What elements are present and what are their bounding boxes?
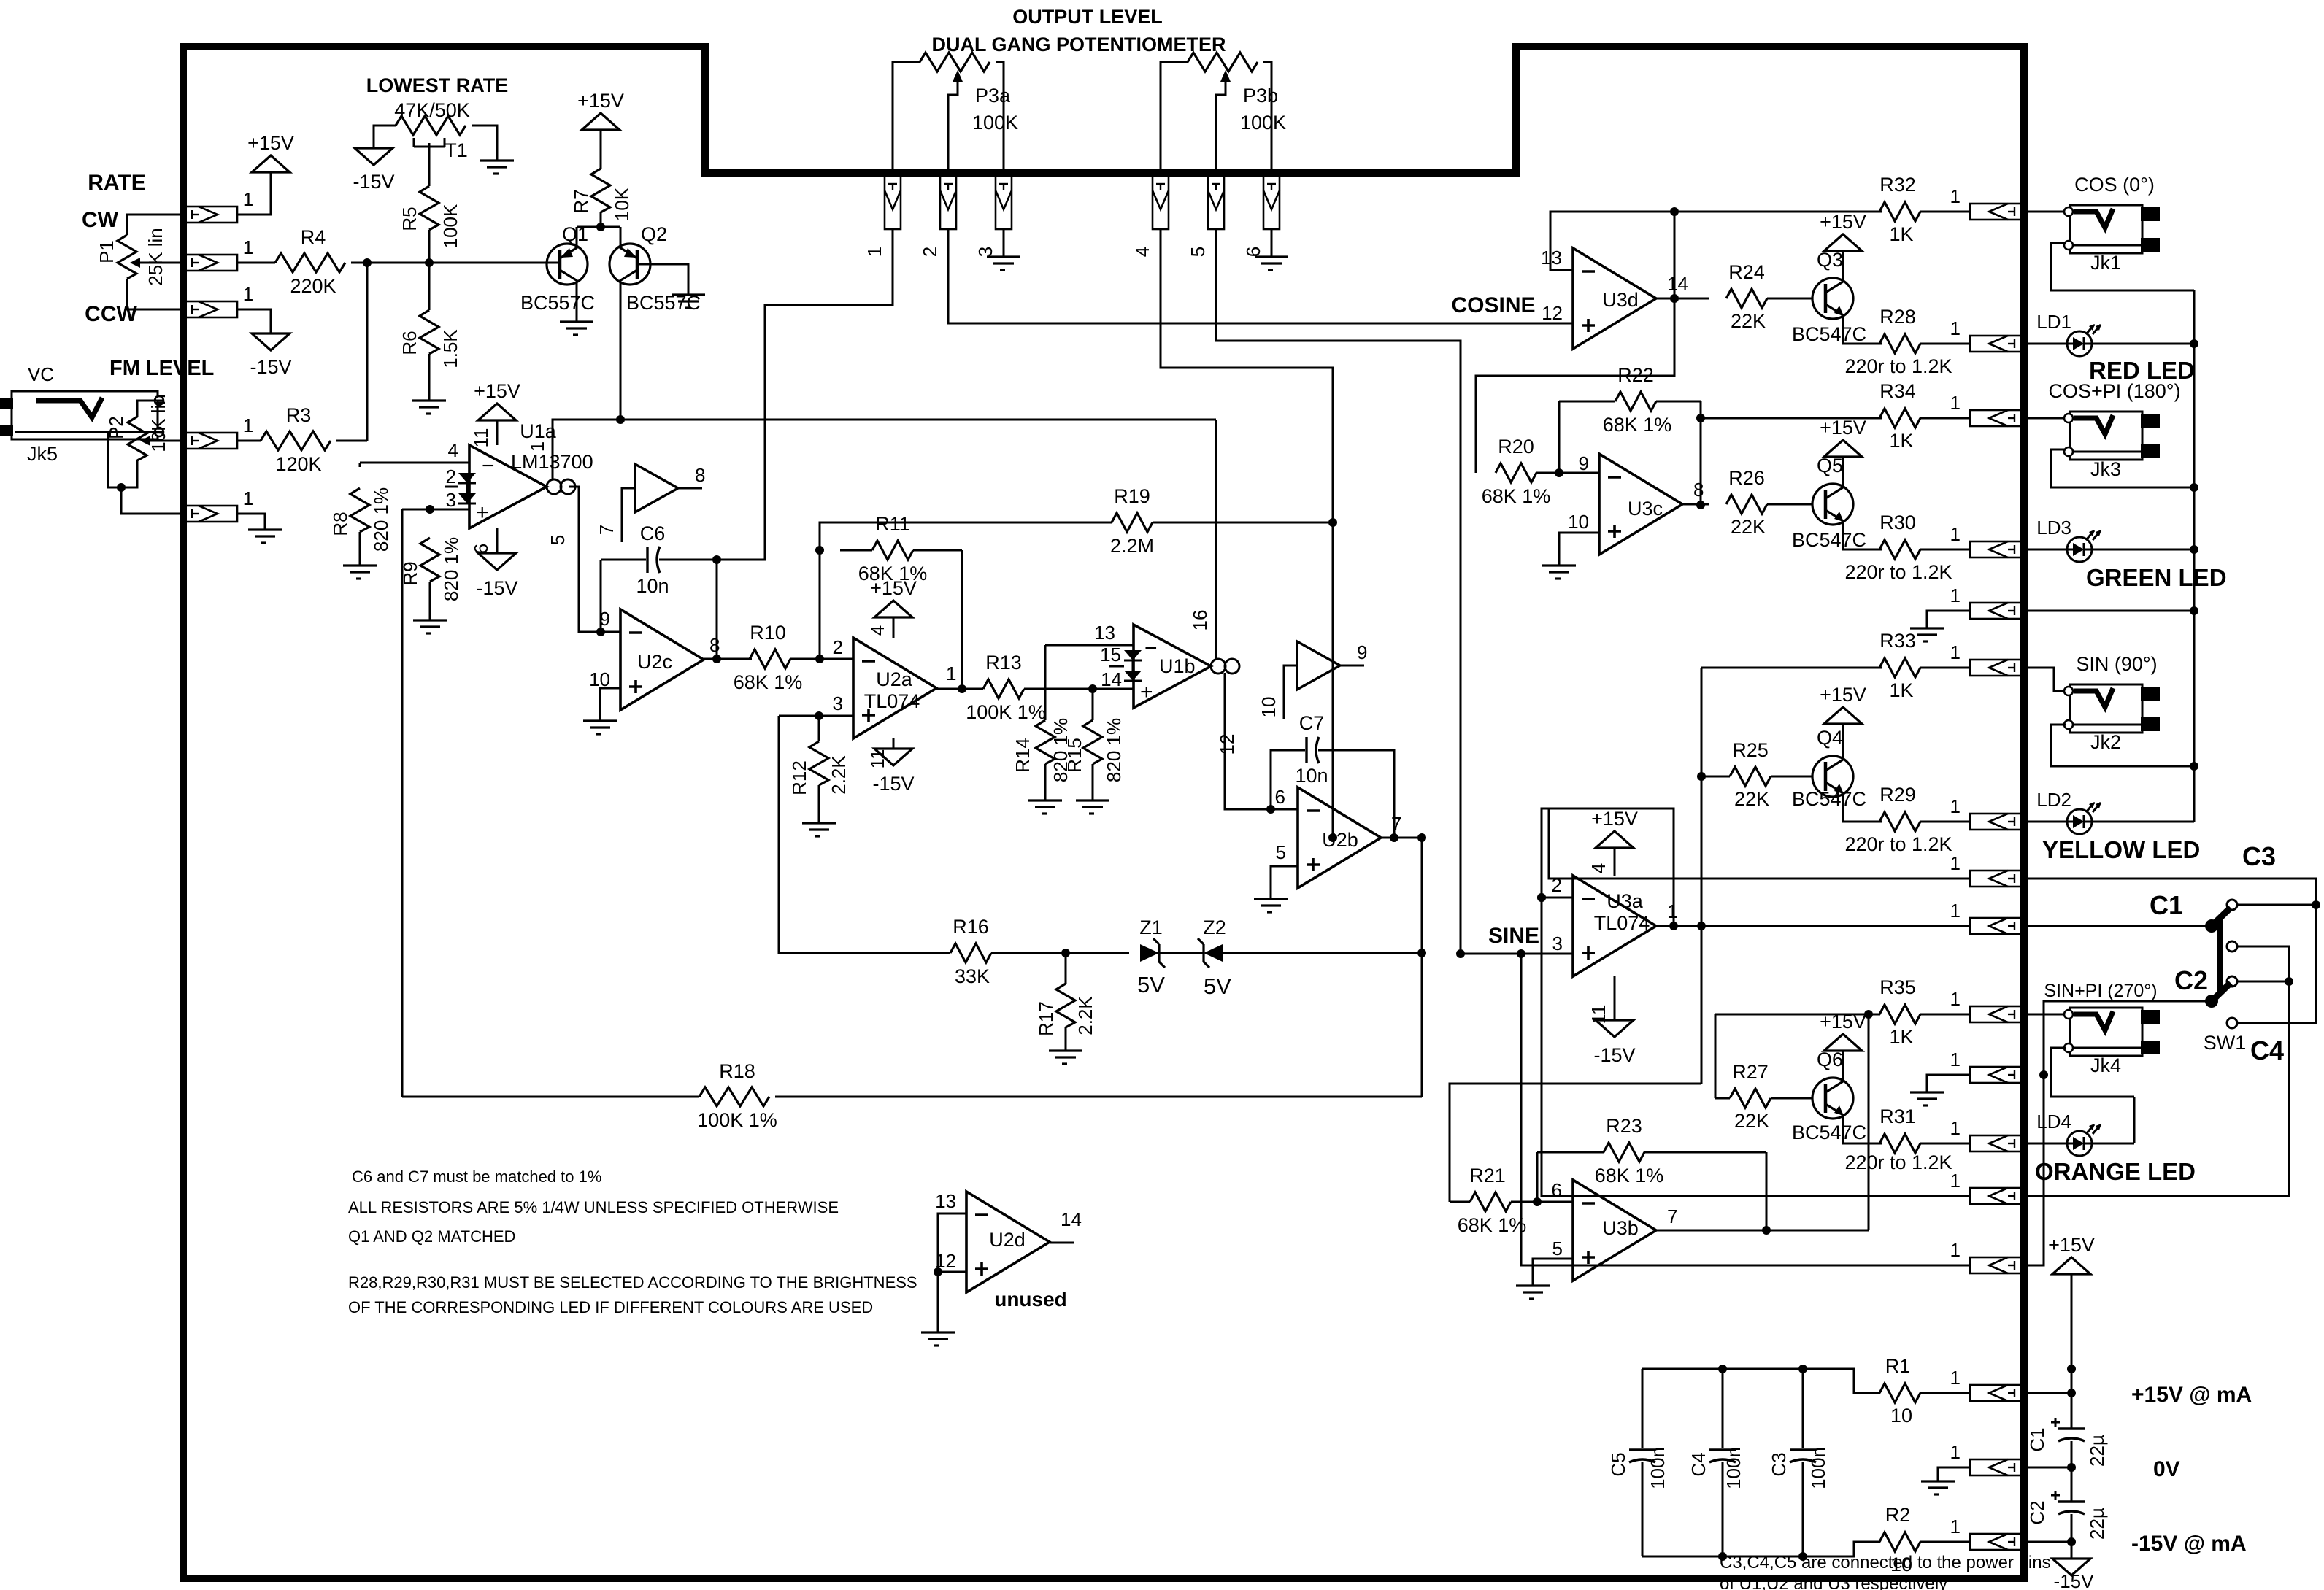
op-amp U2c (620, 609, 704, 710)
wire Q6 collector +15V (1842, 1051, 1844, 1079)
svg-text:1K: 1K (1889, 1026, 1913, 1048)
wire U1a output to U2c (569, 487, 620, 632)
svg-text:R21: R21 (1469, 1165, 1506, 1186)
svg-text:820 1%: 820 1% (1103, 718, 1125, 782)
op-amp U1a LM13700 (OTA) (469, 445, 547, 528)
jack Jk5 (VC input) (12, 391, 158, 439)
wire Q4 collector +15V (1842, 724, 1844, 757)
connector (panel ground) (1970, 603, 2024, 619)
trimmer T1 47K/50K (396, 116, 466, 135)
svg-text:1: 1 (1950, 1516, 1961, 1537)
wire LD1 to rail (2092, 343, 2194, 345)
svg-text:3: 3 (1552, 933, 1563, 954)
svg-text:2: 2 (446, 466, 456, 487)
svg-text:47K/50K: 47K/50K (394, 99, 470, 121)
wire C2 line inner (1521, 954, 1970, 1265)
ground (802, 822, 836, 824)
wire C4 line inner (1542, 898, 1970, 1196)
wire Q5 collector +15V (1842, 457, 1844, 485)
wire to ground (1927, 611, 1970, 628)
svg-text:1.5K: 1.5K (439, 329, 461, 368)
svg-text:R27: R27 (1732, 1061, 1769, 1083)
ground (1910, 1091, 1944, 1093)
svg-text:220r to 1.2K: 220r to 1.2K (1844, 561, 1952, 583)
svg-text:2.2K: 2.2K (1074, 996, 1096, 1035)
wire P3b top to sine out (1161, 229, 1333, 838)
svg-text:U1a: U1a (520, 420, 557, 442)
output stub (1050, 1242, 1074, 1244)
wire SW1 to C3 rail (2237, 904, 2316, 906)
wire U3b out riser (1656, 1230, 1869, 1232)
resistor R2 10 (1879, 1532, 1920, 1551)
svg-text:220r to 1.2K: 220r to 1.2K (1844, 1151, 1952, 1173)
pin11 -15V (1614, 976, 1616, 1020)
svg-text:+: + (476, 501, 489, 525)
connector (LD4) (1970, 1135, 2024, 1151)
ground (1028, 799, 1062, 801)
svg-text:+15V: +15V (2048, 1234, 2095, 1256)
svg-text:100K: 100K (1240, 112, 1286, 134)
svg-text:1: 1 (1950, 392, 1961, 414)
connector pin 1 (FM LEVEL wiper) (183, 433, 237, 449)
svg-text:1: 1 (1950, 641, 1961, 663)
svg-text:ORANGE LED: ORANGE LED (2035, 1158, 2196, 1185)
wire Q4 emitter to R29 (1843, 795, 1882, 822)
wire (2071, 1514, 2073, 1559)
svg-text:R24: R24 (1728, 261, 1765, 283)
power +15V (1824, 1034, 1862, 1051)
ground (1542, 564, 1576, 566)
svg-text:SINE: SINE (1488, 924, 1539, 948)
svg-text:1K: 1K (1889, 679, 1913, 701)
svg-text:220r to 1.2K: 220r to 1.2K (1844, 833, 1952, 855)
connector (SIN out) (1970, 660, 2024, 676)
pin4 +15V (1614, 848, 1616, 876)
resistor R6 1.5K (420, 310, 439, 354)
svg-text:3: 3 (974, 247, 996, 257)
wire U2b output / SINE node (1381, 837, 1422, 839)
resistor R18 100K 1% (402, 1096, 699, 1098)
wire C1 to switch (2024, 925, 2207, 927)
svg-text:33K: 33K (955, 965, 990, 987)
wire U3a out row C1 (1656, 925, 1970, 927)
svg-text:6: 6 (1275, 786, 1285, 808)
wire 0V row (2024, 1467, 2071, 1469)
connector pin 4 (P3b top) (1153, 175, 1169, 229)
wire (1536, 472, 1599, 474)
wire U3c out to R26 (1682, 503, 1709, 506)
jack Jk2 SIN (2070, 684, 2142, 733)
svg-text:9: 9 (1357, 641, 1367, 663)
svg-text:Jk2: Jk2 (2090, 731, 2121, 753)
wire P3b pin6 ground (1271, 229, 1273, 257)
svg-text:820 1%: 820 1% (370, 487, 392, 552)
svg-text:3: 3 (833, 692, 843, 714)
pin10 to ground (600, 688, 620, 721)
svg-text:Z2: Z2 (1203, 916, 1226, 938)
svg-text:R17: R17 (1035, 1001, 1057, 1036)
svg-text:−: − (482, 454, 495, 478)
wire (1024, 688, 1134, 690)
svg-text:22K: 22K (1731, 516, 1766, 538)
svg-text:2: 2 (833, 636, 843, 658)
wire main row to transistors (367, 262, 560, 264)
pin9 wire (601, 631, 620, 633)
svg-text:U2d: U2d (989, 1229, 1026, 1251)
svg-text:R6: R6 (399, 331, 420, 355)
resistor R23 68K 1% feedback (1536, 1152, 1539, 1202)
svg-text:COSINE: COSINE (1451, 293, 1535, 317)
pin5 ground (1271, 866, 1298, 899)
svg-text:BC547C: BC547C (1792, 788, 1866, 810)
svg-text:10: 10 (1258, 697, 1280, 718)
wire (1767, 503, 1812, 506)
svg-text:CCW: CCW (85, 302, 137, 326)
svg-text:1: 1 (1667, 900, 1677, 922)
svg-text:11: 11 (470, 428, 492, 448)
ground (987, 255, 1020, 258)
ground (1254, 898, 1288, 900)
LED LD3 (GREEN) (2067, 537, 2092, 562)
svg-text:13: 13 (935, 1190, 956, 1212)
ground (412, 399, 446, 401)
svg-text:10: 10 (1890, 1405, 1912, 1427)
svg-text:LD3: LD3 (2036, 517, 2071, 539)
wire junction to ground connector (121, 487, 183, 514)
svg-text:-15V: -15V (2054, 1570, 2095, 1590)
wire (237, 172, 271, 215)
ground (1255, 255, 1288, 258)
svg-text:2: 2 (919, 247, 941, 257)
resistor R27 22K (1730, 1089, 1771, 1108)
wire R8 to ground (359, 532, 361, 566)
capacitor C7 10n (1266, 805, 1275, 814)
svg-text:Jk4: Jk4 (2090, 1054, 2121, 1076)
svg-text:+15V: +15V (1591, 808, 1638, 830)
transistor Q5 BC547C (1812, 484, 1853, 525)
resistor R26 22K (1726, 495, 1767, 514)
svg-text:U3b: U3b (1602, 1217, 1639, 1239)
resistor R34 1K (1879, 409, 1920, 428)
svg-text:C3: C3 (1768, 1452, 1790, 1476)
wire U1a pin3 node down (401, 509, 404, 1097)
wire R22 to output (1700, 401, 1702, 505)
svg-text:DUAL GANG POTENTIOMETER: DUAL GANG POTENTIOMETER (931, 34, 1226, 55)
board border outline (183, 47, 2024, 1578)
capacitor C3 100n (1802, 1369, 1804, 1448)
resistor R28 (1879, 334, 1920, 353)
op-amp U1a buffer half (pins 7,8) (635, 464, 678, 512)
svg-text:+15V: +15V (1820, 417, 1866, 439)
svg-text:100K 1%: 100K 1% (697, 1109, 777, 1131)
svg-text:820 1%: 820 1% (440, 537, 462, 601)
svg-text:TL074: TL074 (864, 690, 920, 712)
connector pin 1 (P3a top) (885, 175, 901, 229)
svg-text:C5: C5 (1607, 1452, 1629, 1476)
wire conn to Jk3 tip (2024, 417, 2064, 420)
ground (1516, 1284, 1550, 1286)
wire LD4 return to Jk4 sleeve (2092, 1143, 2134, 1145)
svg-text:8: 8 (1693, 479, 1704, 501)
wire P2 bottom to junction (121, 460, 137, 487)
resistor R7 10K (591, 169, 610, 212)
svg-text:6: 6 (1552, 1179, 1562, 1201)
wire C3 line (2024, 879, 2316, 1023)
pin 2 stub (445, 486, 458, 488)
pin5 ground (1533, 1259, 1573, 1286)
svg-text:10K lin: 10K lin (147, 394, 169, 452)
connector (LD2) (1970, 814, 2024, 830)
wire (1920, 821, 1970, 823)
wire (1920, 343, 1970, 345)
wire T1 wiper to R5 (428, 143, 431, 186)
svg-text:R32: R32 (1879, 174, 1916, 196)
resistor R13 100K 1% (983, 679, 1024, 698)
wire U2a output (936, 688, 983, 690)
wire Q2 base to ground (637, 264, 688, 295)
svg-text:R11: R11 (875, 513, 910, 535)
svg-text:+15V: +15V (1820, 211, 1866, 233)
wire R35 line (1715, 1014, 1880, 1016)
op-amp U3c (1599, 454, 1682, 555)
connector (LD1) (1970, 336, 2024, 352)
svg-text:U3d: U3d (1602, 289, 1639, 311)
resistor R3 120K (261, 431, 331, 450)
svg-text:R30: R30 (1879, 512, 1916, 533)
connector (COS+PI out) (1970, 410, 2024, 426)
svg-text:13: 13 (1094, 622, 1115, 644)
svg-text:+15V: +15V (1820, 1011, 1866, 1033)
connector pin 1 (+15V to RATE pot CW) (183, 207, 237, 223)
wire (790, 658, 853, 660)
power +15V (582, 113, 620, 130)
wire (1920, 211, 1970, 213)
ground (1910, 627, 1944, 629)
svg-text:Q1 AND Q2 MATCHED: Q1 AND Q2 MATCHED (348, 1227, 515, 1246)
svg-text:TL074: TL074 (1594, 912, 1650, 934)
svg-text:C7: C7 (1299, 712, 1325, 734)
capacitor C2 22u (2058, 1500, 2085, 1502)
svg-text:C1: C1 (2150, 890, 2183, 920)
wire (2024, 1143, 2067, 1145)
svg-text:11: 11 (1588, 1005, 1609, 1024)
svg-text:6: 6 (470, 544, 492, 554)
resistor R22 68K 1% feedback (1558, 401, 1561, 473)
U3d feedback loop (1550, 212, 1674, 270)
wire pin3 to R16 row (779, 716, 950, 953)
svg-text:1: 1 (1950, 900, 1961, 922)
svg-text:7: 7 (1667, 1205, 1677, 1227)
resistor R5 100K (420, 186, 439, 230)
wire (1767, 298, 1812, 300)
svg-text:C1: C1 (2026, 1427, 2048, 1451)
svg-text:P1: P1 (96, 240, 118, 263)
pin13/12 wires (938, 1213, 966, 1332)
svg-text:22K: 22K (1734, 1110, 1769, 1132)
svg-text:100n: 100n (1723, 1447, 1744, 1489)
svg-text:5: 5 (547, 535, 569, 545)
connector (C2 line) (1970, 1257, 2024, 1273)
svg-text:14: 14 (1061, 1208, 1082, 1230)
ground (413, 619, 447, 621)
wire (1920, 1143, 1970, 1145)
svg-text:6: 6 (1242, 247, 1264, 257)
wire Jk1 sleeve return (2051, 243, 2194, 290)
svg-text:1: 1 (1950, 185, 1961, 207)
svg-text:SIN+PI (270°): SIN+PI (270°) (2044, 981, 2157, 1001)
wire R17 ground (1065, 1027, 1067, 1051)
svg-text:1: 1 (1950, 852, 1961, 874)
svg-text:3: 3 (446, 489, 456, 511)
wire P1 wiper to connector (156, 262, 183, 264)
svg-text:R16: R16 (953, 916, 989, 938)
svg-text:5V: 5V (1137, 972, 1165, 997)
wire R34 line (1701, 417, 1882, 420)
ground (1049, 1049, 1082, 1051)
wire Jk5 sleeve down (108, 432, 163, 487)
op-amp U2a TL074 (853, 638, 936, 738)
svg-text:+15V: +15V (474, 380, 520, 402)
wire (2024, 343, 2067, 345)
op-amp U3d (1573, 248, 1656, 349)
wire (1159, 952, 1204, 954)
resistor R17 2.2K (1065, 953, 1067, 984)
wire (2071, 1441, 2073, 1502)
svg-text:R31: R31 (1879, 1105, 1916, 1127)
wire conn to Jk4 tip (2024, 1014, 2064, 1016)
connector (panel ground 2) (1970, 1067, 2024, 1083)
svg-text:5V: 5V (1204, 973, 1231, 999)
svg-text:R26: R26 (1728, 467, 1765, 489)
wire R21 feed from U3a out (1701, 926, 1703, 1084)
wire (2024, 821, 2067, 823)
svg-text:1K: 1K (1889, 223, 1913, 245)
resistor R4 220K (275, 253, 345, 272)
pin13 wire (1045, 644, 1134, 647)
connector (COS out) (1970, 204, 2024, 220)
resistor R15 820 1% (1092, 689, 1094, 720)
svg-text:LD1: LD1 (2036, 311, 2071, 333)
wire U3d out to R20 (1476, 298, 1674, 473)
svg-text:4: 4 (1131, 247, 1153, 257)
resistor R16 33K (950, 943, 991, 962)
resistor R30 (1879, 540, 1920, 559)
svg-text:R12: R12 (788, 760, 810, 795)
svg-text:7: 7 (1391, 813, 1401, 835)
svg-text:LM13700: LM13700 (511, 451, 593, 473)
potentiometer P3a 100K (920, 53, 990, 72)
connector (0V) (1970, 1459, 2024, 1475)
svg-text:OUTPUT LEVEL: OUTPUT LEVEL (1012, 6, 1163, 28)
LED LD1 (RED) (2067, 331, 2092, 356)
wire U1b output down to U2b (1225, 673, 1298, 809)
jack Jk1 COS (2070, 205, 2142, 253)
pin4 +15V (893, 617, 895, 638)
svg-text:U3a: U3a (1607, 890, 1644, 912)
svg-text:15: 15 (1100, 644, 1121, 665)
svg-text:11: 11 (866, 749, 888, 769)
resistor R32 1K (1879, 202, 1920, 221)
resistor R12 2.2K (818, 716, 820, 741)
wire raw sine rail (1421, 838, 1423, 1097)
ground (672, 293, 705, 296)
transistor Q6 BC547C (1812, 1078, 1853, 1119)
connector pin 2 (P3a wiper) (940, 175, 956, 229)
wire (2024, 549, 2067, 551)
svg-text:2.2K: 2.2K (828, 755, 850, 795)
wire Jk5 tip to P2 top (137, 401, 163, 417)
wire (237, 309, 271, 333)
svg-text:22K: 22K (1734, 788, 1769, 810)
svg-text:1: 1 (1950, 795, 1961, 817)
op-amp U2b (1298, 787, 1381, 888)
resistor R19 2.2M stabilising feedback (820, 522, 1112, 550)
transistor Q4 BC547C (1812, 756, 1853, 797)
transistor Q2 BC557C (609, 244, 650, 285)
svg-text:U2a: U2a (876, 668, 913, 690)
wire zener row to SINE rail (1223, 952, 1422, 954)
resistor R8 820 1% (359, 463, 361, 467)
connector pin 5 (P3b wiper) (1208, 175, 1224, 229)
potentiometer P2 10K lin (FM LEVEL) (128, 417, 147, 460)
wire Q3 collector +15V (1842, 251, 1844, 279)
connector (-15V) (1970, 1534, 2024, 1550)
svg-text:1: 1 (243, 414, 253, 436)
wire P3b wiper to SINE buffer (1216, 229, 1461, 954)
ground (1076, 799, 1109, 801)
resistor R21 68K 1% (1470, 1192, 1511, 1211)
ground (583, 719, 617, 722)
svg-text:7: 7 (596, 525, 617, 535)
capacitor C5 100n (1642, 1369, 1644, 1448)
wire T1 right to ground (472, 126, 497, 161)
svg-text:GREEN LED: GREEN LED (2086, 564, 2227, 591)
svg-text:1: 1 (1950, 1367, 1961, 1389)
op-amp U2d (unused) (966, 1192, 1050, 1292)
svg-text:-15V: -15V (476, 577, 517, 599)
svg-text:1: 1 (863, 247, 885, 257)
connector (+15V) (1970, 1385, 2024, 1401)
svg-text:LOWEST RATE: LOWEST RATE (366, 74, 508, 96)
svg-text:Q2: Q2 (641, 223, 667, 245)
capacitor C1 22u (2058, 1427, 2085, 1429)
power +15V (252, 155, 290, 172)
wire Jk2 sleeve return (2051, 725, 2194, 766)
svg-text:FM LEVEL: FM LEVEL (109, 357, 214, 380)
svg-text:1: 1 (243, 487, 253, 509)
svg-text:CW: CW (82, 208, 119, 232)
svg-text:SW1: SW1 (2204, 1032, 2247, 1054)
svg-text:68K 1%: 68K 1% (1603, 414, 1672, 436)
svg-text:5: 5 (1187, 247, 1209, 257)
wire SW1 mid contacts to C4 (2237, 946, 2289, 948)
pin11 -15V (893, 738, 895, 749)
svg-text:Jk3: Jk3 (2090, 458, 2121, 480)
wire (1920, 1014, 1970, 1016)
connector (LD3) (1970, 541, 2024, 557)
svg-text:1: 1 (1950, 1049, 1961, 1070)
pin10 ground (1559, 533, 1599, 566)
svg-text:68K 1%: 68K 1% (1458, 1214, 1527, 1236)
wire R12 ground (818, 785, 820, 823)
svg-text:-15V: -15V (1593, 1044, 1635, 1066)
ground (560, 320, 593, 323)
svg-text:R14: R14 (1012, 738, 1034, 773)
svg-text:Jk1: Jk1 (2090, 252, 2121, 274)
svg-text:R3: R3 (286, 404, 312, 426)
wire U2c out (702, 658, 752, 660)
svg-text:LD4: LD4 (2036, 1111, 2071, 1132)
